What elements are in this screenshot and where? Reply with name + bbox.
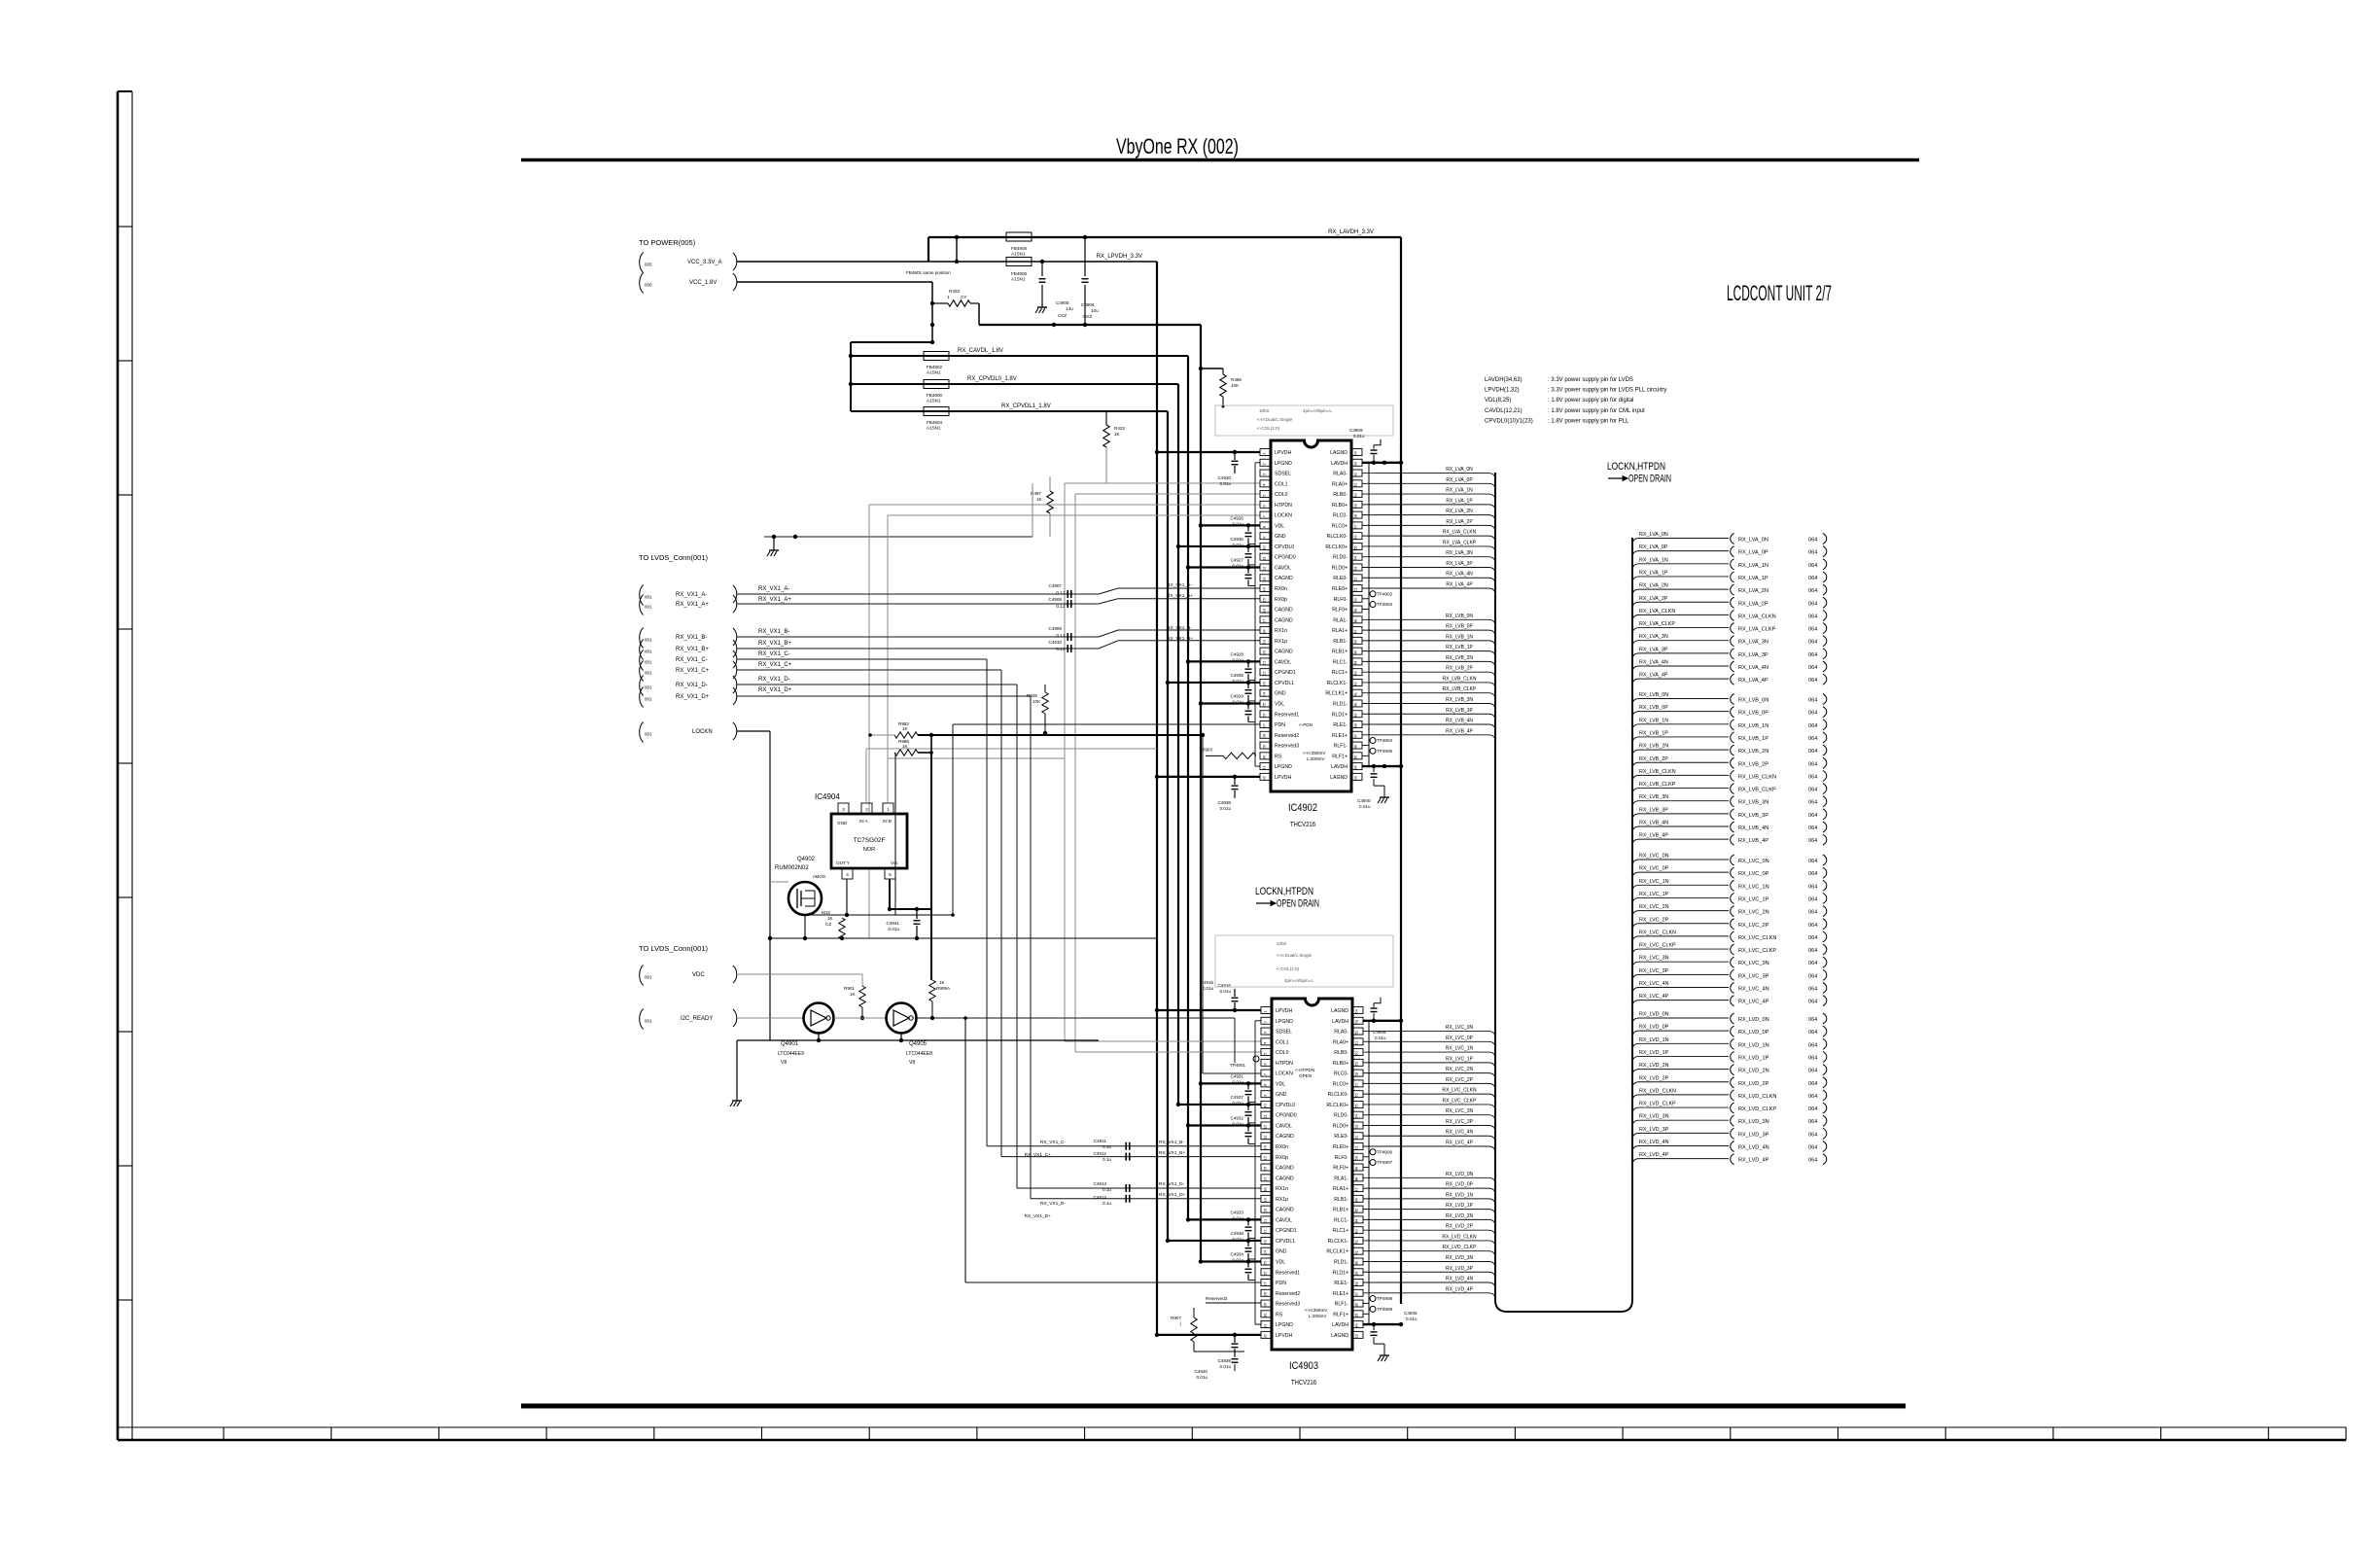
svg-text:IN A: IN A — [859, 819, 869, 824]
svg-text:GND: GND — [1275, 534, 1286, 540]
svg-text:RX_LVD_4N: RX_LVD_4N — [1738, 1145, 1769, 1151]
svg-text:OPEN: OPEN — [1299, 1073, 1312, 1078]
svg-text:0.01u: 0.01u — [1406, 1317, 1417, 1321]
svg-text:064: 064 — [1808, 711, 1817, 717]
svg-text:LCDCONT UNIT 2/7: LCDCONT UNIT 2/7 — [1727, 281, 1832, 305]
svg-text:46: 46 — [1353, 639, 1358, 644]
svg-text:RX_VX1_C+: RX_VX1_C+ — [676, 668, 710, 674]
svg-text:RX_LVA_0N: RX_LVA_0N — [1738, 538, 1768, 544]
svg-text:RX_LVD_2N: RX_LVD_2N — [1446, 1213, 1474, 1219]
svg-text:1K: 1K — [1036, 497, 1043, 502]
svg-text:RLD1-: RLD1- — [1334, 1259, 1348, 1265]
svg-text:16: 16 — [1262, 608, 1267, 613]
svg-text:RX_CPVDL0_1.8V: RX_CPVDL0_1.8V — [967, 376, 1017, 382]
svg-text:RX_LVC_0N: RX_LVC_0N — [1639, 854, 1669, 860]
svg-text:RX_LVD_0P: RX_LVD_0P — [1639, 1025, 1669, 1031]
svg-text:RX_LVB_0P: RX_LVB_0P — [1446, 624, 1473, 630]
svg-text:RX_LVC_0P: RX_LVC_0P — [1639, 866, 1669, 872]
svg-text:1K: 1K — [827, 916, 834, 921]
svg-text:C4940: C4940 — [1357, 798, 1371, 803]
svg-text:: 1.8V power supply pin for CM: : 1.8V power supply pin for CML input — [1548, 408, 1645, 414]
svg-text:C4920: C4920 — [1194, 1369, 1207, 1374]
svg-text:064: 064 — [1808, 698, 1817, 704]
svg-text:26: 26 — [1262, 713, 1267, 718]
svg-text:60: 60 — [1353, 493, 1358, 498]
svg-text:60: 60 — [1354, 1051, 1359, 1056]
svg-text:4: 4 — [846, 872, 849, 877]
svg-text:RX_LVC_1N: RX_LVC_1N — [1639, 879, 1669, 885]
svg-text:005: 005 — [645, 263, 652, 267]
svg-text:RX_LVC_CLKN: RX_LVC_CLKN — [1442, 1088, 1477, 1094]
svg-text:001: 001 — [645, 671, 652, 676]
svg-text:064: 064 — [1808, 774, 1817, 780]
svg-text:10K: 10K — [1032, 699, 1041, 704]
svg-text:55: 55 — [1353, 544, 1358, 549]
svg-text:RX_LVA_2P: RX_LVA_2P — [1639, 596, 1668, 602]
svg-text:<-H:350mV: <-H:350mV — [1303, 751, 1326, 755]
svg-text:0.01u: 0.01u — [1353, 434, 1365, 439]
svg-text:RLC0+: RLC0+ — [1333, 1081, 1348, 1087]
svg-text:CAGND: CAGND — [1275, 617, 1293, 623]
svg-text:<-H:350mV: <-H:350mV — [1305, 1308, 1328, 1313]
svg-text:FB4902: FB4902 — [927, 365, 943, 369]
svg-text:RLCLK0+: RLCLK0+ — [1325, 544, 1347, 550]
svg-text:61: 61 — [1353, 482, 1358, 487]
svg-text:RLC0-: RLC0- — [1334, 1071, 1348, 1077]
svg-text:RX_LVB_CLKN: RX_LVB_CLKN — [1443, 676, 1477, 682]
svg-text:064: 064 — [1808, 601, 1817, 607]
svg-text:RX_LVC_1N: RX_LVC_1N — [1738, 884, 1769, 890]
svg-text:R903: R903 — [1202, 747, 1212, 752]
svg-text:VDC: VDC — [692, 972, 705, 978]
svg-text:064: 064 — [1808, 640, 1817, 646]
svg-text:LAGND: LAGND — [1330, 450, 1347, 456]
svg-text:RX_LVC_0N: RX_LVC_0N — [1738, 859, 1769, 864]
svg-text:12: 12 — [1262, 566, 1267, 571]
svg-text:RX_LVB_3P: RX_LVB_3P — [1446, 708, 1473, 714]
svg-text:RX_LVC_4P: RX_LVC_4P — [1446, 1141, 1474, 1146]
svg-text:064: 064 — [1808, 825, 1817, 831]
svg-text:FB4904: FB4904 — [927, 420, 943, 425]
svg-text:C4926: C4926 — [1230, 515, 1243, 520]
svg-text:59: 59 — [1354, 1061, 1359, 1066]
svg-text:RX_LVB_1P: RX_LVB_1P — [1639, 730, 1668, 736]
svg-text:C4931: C4931 — [1230, 1073, 1243, 1078]
svg-text:TO LVDS_Conn(001): TO LVDS_Conn(001) — [639, 553, 709, 562]
svg-text:RX_LVB_0N: RX_LVB_0N — [1639, 692, 1668, 698]
svg-text:0.01u: 0.01u — [1220, 1364, 1232, 1369]
svg-text:RX_LAVDH_3.3V: RX_LAVDH_3.3V — [1328, 229, 1374, 235]
svg-text:064: 064 — [1808, 588, 1817, 594]
svg-text:Reserved3: Reserved3 — [1206, 1296, 1228, 1301]
svg-text:0.01u: 0.01u — [1220, 806, 1232, 811]
svg-text:RX_LVA_1P: RX_LVA_1P — [1639, 570, 1668, 576]
svg-text:0.01u: 0.01u — [1233, 563, 1244, 568]
svg-text:0.01u: 0.01u — [1359, 804, 1371, 809]
svg-text:PDN: PDN — [1276, 1281, 1286, 1286]
svg-text:RX_LVB_1P: RX_LVB_1P — [1446, 645, 1473, 650]
svg-text:RX_LVC_3N: RX_LVC_3N — [1446, 1108, 1474, 1114]
svg-text:44: 44 — [1354, 1218, 1359, 1223]
svg-text:58: 58 — [1353, 513, 1358, 518]
svg-text:48: 48 — [1353, 618, 1358, 623]
svg-text:10u: 10u — [1091, 308, 1099, 313]
svg-text:RX_LVC_4P: RX_LVC_4P — [1639, 994, 1669, 1000]
svg-text:RLB0+: RLB0+ — [1332, 503, 1347, 509]
svg-text:0.1J: 0.1J — [1056, 590, 1065, 595]
svg-text:064: 064 — [1808, 1132, 1817, 1138]
svg-text:C4905: C4905 — [1056, 300, 1069, 305]
svg-text:CAVDL: CAVDL — [1276, 1217, 1292, 1223]
svg-text:RX_LVC_4N: RX_LVC_4N — [1446, 1130, 1474, 1136]
svg-text:LPGND: LPGND — [1276, 1019, 1293, 1025]
svg-text:V8: V8 — [909, 1060, 915, 1066]
svg-text:56: 56 — [1353, 535, 1358, 540]
svg-text:18: 18 — [1263, 1187, 1268, 1192]
svg-text:RX_VX1_C+: RX_VX1_C+ — [758, 662, 792, 668]
svg-text:RX_VX1_A+: RX_VX1_A+ — [1167, 593, 1193, 599]
svg-text:RX_LVA_1P: RX_LVA_1P — [1446, 498, 1473, 504]
svg-text:CY: CY — [961, 295, 966, 299]
svg-text:<-HTPDN: <-HTPDN — [1295, 1068, 1314, 1072]
svg-text:A1SN1: A1SN1 — [927, 399, 941, 404]
svg-text:CPVDL0: CPVDL0 — [1276, 1103, 1295, 1108]
svg-text:CKZ: CKZ — [1083, 314, 1092, 319]
svg-text:LOCKN: LOCKN — [1276, 1071, 1293, 1077]
svg-text:0.01u: 0.01u — [1233, 1257, 1244, 1262]
svg-text:Reserved1: Reserved1 — [1275, 712, 1299, 718]
svg-text:43: 43 — [1353, 671, 1358, 676]
svg-text:CPVDL1: CPVDL1 — [1275, 681, 1294, 686]
svg-text:RX_LVD_1P: RX_LVD_1P — [1738, 1055, 1769, 1061]
svg-text:45: 45 — [1353, 650, 1358, 654]
svg-text:59: 59 — [1353, 503, 1358, 508]
svg-text:RX_LVD_4P: RX_LVD_4P — [1738, 1158, 1769, 1164]
svg-text:15: 15 — [1263, 1155, 1268, 1160]
svg-text:RX_LVD_0P: RX_LVD_0P — [1738, 1030, 1769, 1036]
svg-text:10: 10 — [1263, 1103, 1268, 1107]
svg-text:RLB1-: RLB1- — [1334, 1197, 1348, 1203]
svg-text:0.01u: 0.01u — [1233, 1079, 1244, 1084]
svg-text:C4910: C4910 — [1048, 640, 1062, 645]
svg-text:RX_LVD_3P: RX_LVD_3P — [1639, 1127, 1669, 1133]
svg-text:0.01u: 0.01u — [1233, 1101, 1244, 1106]
svg-text:24: 24 — [1263, 1249, 1268, 1254]
svg-text:RX_LVB_3N: RX_LVB_3N — [1639, 794, 1668, 800]
svg-text:47: 47 — [1354, 1187, 1359, 1192]
svg-text:RX_LVC_CLKP: RX_LVC_CLKP — [1639, 943, 1676, 949]
svg-text:RX_LVC_0P: RX_LVC_0P — [1446, 1036, 1474, 1041]
svg-text:24: 24 — [1262, 691, 1267, 696]
svg-text:RX_LVB_1N: RX_LVB_1N — [1639, 718, 1668, 723]
svg-text:RX_LVD_1N: RX_LVD_1N — [1738, 1042, 1769, 1048]
svg-text:RLC1+: RLC1+ — [1332, 670, 1347, 676]
svg-text:RX_LVA_3P: RX_LVA_3P — [1639, 647, 1668, 652]
svg-text:LAGND: LAGND — [1330, 775, 1347, 781]
svg-text:37: 37 — [1354, 1291, 1359, 1296]
svg-text:RX_VX1_B-: RX_VX1_B- — [1159, 1140, 1184, 1145]
svg-text:TO POWER(005): TO POWER(005) — [639, 238, 696, 247]
svg-text:064: 064 — [1808, 923, 1817, 929]
svg-text:62: 62 — [1353, 472, 1358, 476]
svg-text:C4929: C4929 — [1230, 693, 1243, 698]
svg-text:RLD0-: RLD0- — [1333, 555, 1347, 561]
svg-text:TP4901: TP4901 — [1230, 1063, 1246, 1068]
svg-text:41: 41 — [1353, 691, 1358, 696]
svg-text:Reserved3: Reserved3 — [1276, 1302, 1300, 1308]
svg-text:064: 064 — [1808, 761, 1817, 767]
svg-text:064: 064 — [1808, 749, 1817, 755]
svg-text:0.01u: 0.01u — [889, 927, 900, 931]
svg-text:Reserved1: Reserved1 — [1276, 1270, 1300, 1276]
svg-text:Reserved3: Reserved3 — [1275, 744, 1299, 750]
svg-text:RLA1-: RLA1- — [1333, 617, 1347, 623]
svg-text:RX_LVC_3P: RX_LVC_3P — [1639, 968, 1669, 974]
svg-text:CAGND: CAGND — [1276, 1134, 1294, 1140]
svg-text:RX_LVA_4N: RX_LVA_4N — [1446, 572, 1473, 578]
svg-text:RLE0+: RLE0+ — [1332, 586, 1347, 592]
svg-text:RLE1-: RLE1- — [1333, 722, 1347, 728]
svg-text:C4941: C4941 — [886, 921, 899, 926]
svg-text:RX_LVA_CLKN: RX_LVA_CLKN — [1443, 530, 1477, 536]
svg-text:LAVDH: LAVDH — [1331, 764, 1347, 770]
svg-text:C4906: C4906 — [1081, 302, 1095, 307]
svg-text:RX_LVB_4N: RX_LVB_4N — [1738, 825, 1768, 831]
svg-text:LPVDH: LPVDH — [1276, 1333, 1293, 1339]
svg-text:RX_LVD_1P: RX_LVD_1P — [1446, 1203, 1474, 1209]
svg-text:001: 001 — [645, 685, 652, 690]
svg-text:RX_LVC_CLKN: RX_LVC_CLKN — [1738, 935, 1776, 941]
svg-text:RX_VX1_D+: RX_VX1_D+ — [1025, 1213, 1052, 1219]
svg-text:CAVDL: CAVDL — [1276, 1123, 1292, 1129]
svg-text:064: 064 — [1808, 948, 1817, 954]
svg-text:47: 47 — [1353, 629, 1358, 634]
svg-text:LAVDH: LAVDH — [1332, 1322, 1348, 1328]
svg-text:38: 38 — [1353, 723, 1358, 728]
svg-text:RX_VX1_A-: RX_VX1_A- — [676, 592, 707, 598]
svg-text:RX_LVC_CLKP: RX_LVC_CLKP — [1443, 1098, 1478, 1104]
svg-text:56: 56 — [1354, 1093, 1359, 1098]
svg-text:0.01u: 0.01u — [1220, 989, 1232, 994]
svg-text:Q4901: Q4901 — [781, 1041, 799, 1047]
svg-text:LOCKN: LOCKN — [1275, 513, 1292, 519]
svg-text:064: 064 — [1808, 665, 1817, 671]
svg-text:22: 22 — [1263, 1229, 1268, 1234]
svg-text:RX_LVD_2P: RX_LVD_2P — [1738, 1081, 1769, 1087]
svg-text:064: 064 — [1808, 910, 1817, 916]
svg-text:5: 5 — [889, 872, 892, 877]
svg-text:001: 001 — [645, 697, 652, 702]
svg-text:32: 32 — [1262, 775, 1267, 780]
svg-text:RX_VX1_D-: RX_VX1_D- — [1159, 1181, 1185, 1187]
svg-text:064: 064 — [1808, 1158, 1817, 1164]
svg-text:VDL: VDL — [1275, 523, 1284, 529]
svg-text:RLA0-: RLA0- — [1333, 472, 1347, 477]
svg-text:25: 25 — [1263, 1260, 1268, 1265]
svg-text:RX_LVD_CLKN: RX_LVD_CLKN — [1738, 1094, 1776, 1100]
svg-text:CAGND: CAGND — [1276, 1208, 1294, 1213]
svg-text:LAVDH: LAVDH — [1331, 461, 1347, 467]
svg-text:R909A: R909A — [936, 986, 951, 991]
svg-text:RX_LVA_2N: RX_LVA_2N — [1738, 588, 1768, 594]
svg-text:RX_LVB_1P: RX_LVB_1P — [1738, 736, 1768, 742]
svg-text:RX_LVD_CLKP: RX_LVD_CLKP — [1443, 1245, 1478, 1250]
svg-text:CAVDL: CAVDL — [1275, 659, 1291, 665]
svg-text:RX_LVD_0N: RX_LVD_0N — [1639, 1012, 1669, 1018]
svg-text:C4907: C4907 — [1048, 583, 1062, 588]
svg-text:RLA1+: RLA1+ — [1333, 1186, 1348, 1192]
svg-text:RX1n: RX1n — [1276, 1186, 1288, 1192]
svg-text:0.01u: 0.01u — [1197, 1375, 1208, 1380]
svg-text:RX_LVD_4N: RX_LVD_4N — [1639, 1140, 1669, 1145]
svg-text:17: 17 — [1262, 618, 1267, 623]
svg-text:R901: R901 — [844, 986, 855, 991]
svg-text:L:200mV: L:200mV — [1307, 756, 1325, 761]
svg-text:064: 064 — [1808, 614, 1817, 619]
svg-text:RX_LVC_2N: RX_LVC_2N — [1639, 904, 1669, 910]
svg-text:13: 13 — [1263, 1135, 1268, 1140]
svg-text:R423: R423 — [1114, 426, 1125, 431]
svg-text:15: 15 — [1262, 597, 1267, 602]
svg-text:C4909: C4909 — [1048, 626, 1062, 631]
svg-text:RX_LVB_CLKN: RX_LVB_CLKN — [1639, 769, 1676, 775]
svg-text:RX1n: RX1n — [1275, 628, 1287, 634]
svg-text:C4913: C4913 — [1093, 1181, 1106, 1186]
svg-text:0.01u: 0.01u — [1233, 1237, 1244, 1242]
svg-text:RX0n: RX0n — [1276, 1144, 1288, 1150]
svg-text:31: 31 — [1262, 765, 1267, 770]
svg-text:064: 064 — [1808, 788, 1817, 793]
svg-text:: 1.8V power supply pin for PL: : 1.8V power supply pin for PLL — [1548, 418, 1629, 424]
svg-text:: 3.3V power supply pin for LV: : 3.3V power supply pin for LVDS — [1548, 377, 1633, 383]
svg-text:RX_LVC_CLKP: RX_LVC_CLKP — [1738, 948, 1776, 954]
svg-text:TO LVDS_Conn(001): TO LVDS_Conn(001) — [639, 944, 709, 953]
svg-text:RX_LVA_0N: RX_LVA_0N — [1446, 467, 1473, 473]
svg-text:52: 52 — [1353, 577, 1358, 581]
svg-text:RX_LVD_3P: RX_LVD_3P — [1738, 1132, 1769, 1138]
svg-text:VDL(8,25): VDL(8,25) — [1485, 398, 1511, 404]
svg-text:RX_LVA_1N: RX_LVA_1N — [1738, 563, 1768, 569]
svg-text:RX_LVA_2P: RX_LVA_2P — [1738, 601, 1768, 607]
svg-text:RLC1+: RLC1+ — [1333, 1228, 1348, 1234]
svg-text:CAGND: CAGND — [1275, 576, 1293, 581]
svg-text:FB4900: FB4900 — [927, 393, 943, 398]
svg-text:RX_LVA_2N: RX_LVA_2N — [1639, 583, 1668, 589]
svg-text:CAGND: CAGND — [1275, 608, 1293, 614]
svg-text:RX_LVA_CLKP: RX_LVA_CLKP — [1738, 627, 1776, 633]
svg-text:61: 61 — [1354, 1040, 1359, 1045]
svg-text:27: 27 — [1262, 723, 1267, 728]
svg-text:SDSEL: SDSEL — [1275, 472, 1291, 477]
svg-text:RX_LVD_CLKP: RX_LVD_CLKP — [1738, 1106, 1776, 1112]
svg-text:RX_VX1_A-: RX_VX1_A- — [1167, 582, 1192, 588]
svg-text:64: 64 — [1353, 451, 1358, 456]
svg-text:064: 064 — [1808, 563, 1817, 569]
svg-text:064: 064 — [1808, 884, 1817, 890]
svg-text:LPVDH: LPVDH — [1276, 1008, 1293, 1014]
svg-text:RUM002N02: RUM002N02 — [775, 865, 809, 871]
svg-text:RX_VX1_C+: RX_VX1_C+ — [1025, 1152, 1052, 1158]
svg-text:46: 46 — [1354, 1197, 1359, 1202]
svg-text:001: 001 — [645, 595, 652, 600]
svg-text:C4927: C4927 — [1230, 557, 1243, 562]
svg-text:064: 064 — [1808, 678, 1817, 684]
svg-text:064: 064 — [1808, 1017, 1817, 1023]
svg-text:RX_LVD_1N: RX_LVD_1N — [1639, 1037, 1669, 1043]
svg-text:28: 28 — [1263, 1291, 1268, 1296]
svg-text:GND: GND — [1276, 1249, 1287, 1255]
svg-text:CKZ: CKZ — [1058, 313, 1067, 318]
svg-text:27: 27 — [1263, 1282, 1268, 1286]
svg-text:RX_LVA_1P: RX_LVA_1P — [1738, 576, 1768, 581]
svg-text:20: 20 — [1262, 650, 1267, 654]
svg-text:RX_LVA_3P: RX_LVA_3P — [1446, 561, 1473, 567]
svg-text:CAVDL(12,21): CAVDL(12,21) — [1485, 408, 1522, 414]
svg-text:35: 35 — [1353, 755, 1358, 759]
svg-text:0.01u: 0.01u — [1233, 679, 1244, 684]
svg-text:TP4908: TP4908 — [1377, 1296, 1393, 1301]
svg-text:COL0: COL0 — [1275, 492, 1288, 498]
svg-text:1K: 1K — [1114, 432, 1121, 437]
svg-text:50: 50 — [1353, 597, 1358, 602]
svg-text:RLD0+: RLD0+ — [1332, 565, 1347, 571]
svg-text:064: 064 — [1808, 838, 1817, 844]
svg-text:RX_LVD_CLKN: RX_LVD_CLKN — [1442, 1234, 1477, 1240]
svg-text:RLC0-: RLC0- — [1333, 513, 1347, 519]
svg-text:RLC0+: RLC0+ — [1332, 523, 1347, 529]
svg-text:0.01u: 0.01u — [1233, 543, 1244, 547]
svg-text:RX_LVC_0P: RX_LVC_0P — [1738, 871, 1769, 877]
svg-text:49: 49 — [1354, 1166, 1359, 1171]
svg-text:IN B: IN B — [883, 819, 892, 824]
svg-text:GND: GND — [1276, 1092, 1287, 1098]
svg-text:064: 064 — [1808, 1106, 1817, 1112]
svg-text:RX_LVC_0N: RX_LVC_0N — [1446, 1025, 1474, 1031]
svg-text:41: 41 — [1354, 1249, 1359, 1254]
svg-text:: 3.3V power supply pin for LV: : 3.3V power supply pin for LVDS PLL cir… — [1548, 388, 1666, 394]
svg-text:26: 26 — [1263, 1271, 1268, 1276]
svg-text:<-H:Dual/L:Single: <-H:Dual/L:Single — [1277, 953, 1312, 958]
svg-text:RLF0-: RLF0- — [1334, 597, 1348, 603]
svg-text:RX1p: RX1p — [1276, 1197, 1288, 1203]
svg-text:1K: 1K — [850, 992, 857, 997]
svg-text:LPVDH: LPVDH — [1275, 775, 1292, 781]
svg-text:RLD1+: RLD1+ — [1333, 1270, 1348, 1276]
svg-text:34: 34 — [1354, 1323, 1359, 1328]
svg-text:RLF0+: RLF0+ — [1332, 608, 1347, 614]
svg-text:C4928: C4928 — [1230, 651, 1243, 656]
svg-text:RX_LVB_1N: RX_LVB_1N — [1738, 723, 1768, 729]
svg-text:RX_LVC_2N: RX_LVC_2N — [1446, 1067, 1474, 1072]
svg-text:RX_LVD_4P: RX_LVD_4P — [1446, 1286, 1474, 1292]
svg-text:TP4909: TP4909 — [1377, 1307, 1393, 1312]
svg-text:064: 064 — [1808, 723, 1817, 729]
svg-text:0.01u: 0.01u — [1233, 1215, 1244, 1220]
svg-text:001: 001 — [645, 650, 652, 654]
svg-text:C4935: C4935 — [1230, 673, 1243, 678]
svg-text:22: 22 — [1262, 671, 1267, 676]
svg-text:CPGND0: CPGND0 — [1276, 1113, 1297, 1119]
svg-text:RX_LVD_4P: RX_LVD_4P — [1639, 1152, 1669, 1158]
svg-text:RX_LVD_2P: RX_LVD_2P — [1446, 1224, 1474, 1230]
svg-text:RX_LVA_CLKN: RX_LVA_CLKN — [1639, 609, 1675, 614]
svg-text:RX_LVD_CLKN: RX_LVD_CLKN — [1639, 1088, 1676, 1094]
svg-text:LPGND: LPGND — [1276, 1322, 1293, 1328]
svg-text:064: 064 — [1808, 1094, 1817, 1100]
svg-text:45: 45 — [1354, 1208, 1359, 1212]
svg-text:C4938: C4938 — [1230, 1231, 1243, 1236]
svg-text:I2C_READY: I2C_READY — [681, 1016, 713, 1022]
